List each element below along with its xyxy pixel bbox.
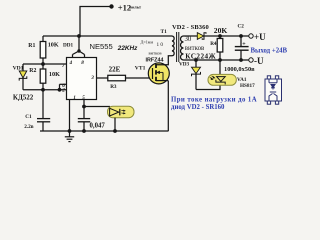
wire pins 4/8 bridge xyxy=(73,36,85,58)
svg-text:VT1: VT1 xyxy=(135,65,146,71)
svg-text:1 0: 1 0 xyxy=(157,42,164,48)
svg-text:1000,0x50в: 1000,0x50в xyxy=(224,66,255,73)
wire pin1 to ground rail xyxy=(69,100,71,132)
svg-text:Д=1мм: Д=1мм xyxy=(141,39,154,44)
capacitor C1 xyxy=(37,90,50,131)
wire +U rail xyxy=(204,35,248,37)
wire opto lead to rail xyxy=(114,118,116,131)
wire -U rail xyxy=(184,59,249,61)
op-amp U1 NE555 body xyxy=(67,58,97,100)
svg-text:1: 1 xyxy=(73,95,76,101)
svg-text:+: + xyxy=(242,42,246,48)
transistor VT1 IRFZ44 xyxy=(148,56,172,84)
svg-text:2.2n: 2.2n xyxy=(24,124,33,130)
svg-text:4: 4 xyxy=(69,60,73,66)
svg-text:+U: +U xyxy=(254,32,266,42)
svg-text:вольт: вольт xyxy=(130,5,142,10)
svg-text:IRFZ44: IRFZ44 xyxy=(146,57,164,63)
svg-text:-U: -U xyxy=(254,56,264,66)
svg-text:VA1: VA1 xyxy=(237,77,247,83)
svg-text:NE555: NE555 xyxy=(90,42,113,51)
wire top rail xyxy=(43,35,172,37)
svg-text:витков: витков xyxy=(149,51,163,56)
svg-text:C2: C2 xyxy=(238,24,245,30)
capacitor C2 xyxy=(235,36,249,60)
wire node B horizontal xyxy=(23,89,67,91)
svg-text:DD1: DD1 xyxy=(63,42,73,48)
pin numbers xyxy=(61,60,94,101)
diode VD1 КД522 xyxy=(19,64,27,90)
label +12вольт xyxy=(118,2,142,12)
svg-text:3: 3 xyxy=(90,75,94,81)
svg-text:8: 8 xyxy=(81,60,84,66)
diode VD3 КС224Ж xyxy=(192,60,201,90)
svg-text:КД522: КД522 xyxy=(13,93,34,101)
wire gate xyxy=(126,77,153,79)
wire LED bottom loop xyxy=(196,86,220,90)
wire pin5 to opto xyxy=(84,106,110,108)
svg-text:7: 7 xyxy=(62,63,65,69)
opto package VA1 HS817 xyxy=(265,76,282,104)
transformer core xyxy=(176,32,178,62)
wire node A to VD1 xyxy=(23,63,43,65)
svg-text:0,047: 0,047 xyxy=(90,123,106,130)
svg-text:VD3: VD3 xyxy=(179,62,189,68)
wire pin5 down xyxy=(83,100,85,119)
node bridge dot xyxy=(77,49,80,52)
node A dot xyxy=(41,62,45,66)
svg-text:КС224Ж: КС224Ж xyxy=(185,52,216,60)
resistor R1 xyxy=(40,36,46,69)
svg-text:диод VD2 - SR160: диод VD2 - SR160 xyxy=(171,104,225,111)
node R4 crossing dot xyxy=(218,58,222,62)
node B dot xyxy=(41,88,45,92)
svg-text:HS817: HS817 xyxy=(240,83,255,89)
node rail dots xyxy=(68,129,72,133)
terminal -U xyxy=(249,58,253,62)
transformer T1 secondary xyxy=(181,36,184,60)
wire source to rail xyxy=(167,81,169,131)
wire pin3 xyxy=(97,77,109,79)
svg-text:R1: R1 xyxy=(28,43,35,49)
node pin5 dot xyxy=(82,105,86,109)
wire R2 bottom xyxy=(42,83,44,90)
node R4 top dot xyxy=(218,34,222,38)
node C2 bottom dot xyxy=(239,58,243,62)
diode VD2 SB360 xyxy=(197,33,206,40)
resistor R3 xyxy=(108,75,126,81)
svg-text:2: 2 xyxy=(61,88,65,94)
resistor R2 xyxy=(40,69,46,83)
svg-text:Выход +24В: Выход +24В xyxy=(251,48,288,55)
capacitor 0,047 xyxy=(78,119,90,122)
svg-text:VD1: VD1 xyxy=(13,65,24,71)
svg-text:30: 30 xyxy=(185,36,192,43)
svg-text:20K: 20K xyxy=(214,26,228,35)
svg-text:22E: 22E xyxy=(109,66,121,74)
svg-text:VD2 - SB360: VD2 - SB360 xyxy=(172,24,209,31)
svg-text:10K: 10K xyxy=(49,71,60,78)
svg-text:T1: T1 xyxy=(161,29,168,35)
wire +12V feed xyxy=(80,7,112,37)
opto LED VA1 right half xyxy=(208,74,236,85)
resistor R4 xyxy=(217,36,223,86)
wire pins 6 and 2 xyxy=(60,84,67,90)
node VD3 top dot xyxy=(194,58,198,62)
wire secondary top xyxy=(184,35,198,37)
svg-text:10K: 10K xyxy=(48,42,59,49)
opto photodiode VA1 left half xyxy=(108,106,135,118)
node +12V dot xyxy=(109,4,113,8)
node pin6/2 dot xyxy=(58,88,62,92)
svg-text:C1: C1 xyxy=(25,114,32,120)
svg-text:При токе нагрузки до 1А: При токе нагрузки до 1А xyxy=(171,97,257,104)
node rail junction dot xyxy=(77,34,81,38)
svg-text:22KHz: 22KHz xyxy=(117,45,138,52)
svg-text:R4: R4 xyxy=(210,41,217,47)
node C2 top dot xyxy=(239,34,243,38)
wire ground rail xyxy=(40,130,169,132)
transformer T1 primary xyxy=(172,36,174,56)
svg-text:R3: R3 xyxy=(110,84,117,90)
svg-text:R2: R2 xyxy=(29,68,36,74)
ground xyxy=(65,131,74,142)
terminal +U xyxy=(249,34,253,38)
svg-text:витков: витков xyxy=(185,45,204,52)
wire node A to pin7 xyxy=(43,63,67,65)
